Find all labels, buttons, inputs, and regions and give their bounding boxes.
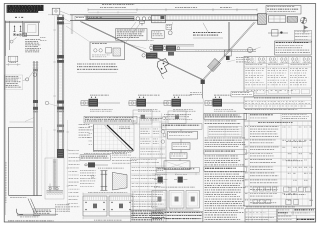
- graph axis labels: [93, 151, 133, 153]
- anchor trapezoid plate: [112, 172, 127, 190]
- secondary dimension line: [88, 11, 137, 13]
- trolley detail rails: [150, 44, 194, 46]
- dimension line left of wall: [46, 130, 48, 195]
- beam inner lines: [84, 16, 258, 20]
- anchor plan view left: [83, 196, 107, 216]
- elbow bracket on left tie: [157, 59, 169, 74]
- left note block text: [5, 75, 23, 90]
- rope column labels: [246, 64, 263, 66]
- section B-B top flange lines: [5, 21, 40, 23]
- anchor plan rect group3: [168, 111, 186, 123]
- wall column chords: [33, 61, 37, 196]
- hoist runway block: [88, 17, 134, 21]
- load capacity curve: [107, 125, 133, 150]
- spacer block: [17, 34, 19, 36]
- flow labels top: [164, 114, 192, 119]
- anchor detail group 3: [173, 94, 192, 96]
- reeving sketch 1b: [258, 58, 260, 60]
- flow profile outline: [164, 161, 190, 170]
- reeving sketch 3a: [292, 58, 294, 60]
- rope spec text column 3: [290, 68, 308, 85]
- load diagram axes: [93, 125, 134, 151]
- beam end fitting box: [268, 16, 285, 22]
- reeving sketch 3b: [303, 58, 305, 60]
- parts table quantity cells: [282, 126, 285, 128]
- flow box 3: [172, 143, 190, 150]
- flow balloons: [163, 117, 166, 120]
- plan view labels: [88, 191, 128, 193]
- anchor bolt right: [19, 26, 21, 31]
- flow column frame: [162, 98, 203, 222]
- anchor detail inner column: [53, 159, 57, 190]
- annotation under schematic: [77, 64, 118, 69]
- parts table header text: [250, 114, 273, 116]
- dimension line under detail box: [6, 63, 20, 66]
- beam bottom chord: [70, 20, 258, 22]
- labels right of caption: [112, 152, 136, 163]
- rope spec text column 1: [245, 68, 265, 85]
- flow title strip: [162, 124, 203, 130]
- rope subtotal boxes: [246, 89, 255, 93]
- numeric sub-table: [244, 97, 312, 109]
- tie rod left: [80, 22, 203, 80]
- wall column splice plates: [33, 100, 38, 103]
- title block drawing title: [294, 209, 313, 211]
- title block small fields: [278, 209, 289, 211]
- notes column heading 2: [204, 150, 247, 155]
- parts table caption: [246, 206, 295, 208]
- hoist schematic box: [90, 42, 125, 60]
- small assembly under caption: [84, 164, 108, 166]
- fastener icon row 1: [253, 187, 258, 191]
- general notes dense text band: [7, 5, 44, 13]
- hook block: [224, 50, 231, 56]
- anchor bolt left: [13, 26, 15, 31]
- text under console base: [20, 216, 38, 218]
- tie rod right: [203, 22, 256, 79]
- main column splice lower: [57, 125, 63, 127]
- reeving sketch 1a: [247, 58, 249, 60]
- note under anchor detail: [55, 205, 71, 211]
- console diagonal strut: [28, 199, 37, 214]
- section B-B housing box: [24, 23, 39, 36]
- bottom parts table: [152, 211, 203, 222]
- flow box 4: [170, 153, 187, 159]
- anchor detail group 1: [90, 94, 109, 96]
- anchor plan rect group2: [133, 110, 152, 124]
- beam top chord: [70, 14, 258, 16]
- building roof upper line: [9, 121, 33, 123]
- hoist symbol leader: [48, 11, 70, 15]
- title block frame: [277, 209, 316, 222]
- beam label box: [75, 16, 86, 20]
- parts table subheader row: [258, 121, 292, 123]
- callout balloon 5: [10, 40, 13, 43]
- mast leader line: [66, 26, 90, 42]
- section B-B hatched corner block: [23, 33, 27, 36]
- gusset plate on right tie: [207, 58, 220, 71]
- facade vertical pair: [71, 15, 73, 34]
- main column bottom block: [57, 149, 64, 158]
- small detail box: [8, 56, 18, 62]
- section B-B label: [15, 16, 23, 18]
- main column splice top: [57, 55, 63, 58]
- anchor detail labels: [98, 167, 124, 169]
- tie annotation: [236, 57, 250, 62]
- fastener icon row 2: [253, 200, 258, 204]
- anchor plan view right: [109, 196, 133, 216]
- anchor detail cross parts: [46, 190, 63, 192]
- base plan view 3: [186, 191, 200, 209]
- hoist rope: [228, 22, 229, 50]
- wall column top bracket: [33, 62, 39, 68]
- building roof line: [9, 127, 34, 129]
- rope data table frame: [244, 56, 312, 95]
- small weld detail right: [178, 177, 183, 183]
- survey point symbol: [300, 17, 306, 23]
- small dimension text pair: [40, 38, 46, 41]
- load capacity curve 2: [104, 125, 129, 150]
- small ref box and balloon: [166, 25, 172, 30]
- rope spec dividers: [252, 67, 297, 88]
- dimension figures: [100, 7, 126, 9]
- sheet header tiny text: [102, 3, 134, 5]
- building wall left edge: [8, 127, 10, 196]
- wall column balloon: [33, 73, 37, 77]
- beam truss web ticks: [167, 15, 254, 20]
- section B-B verticals: [5, 21, 24, 56]
- mid caption box: [80, 155, 110, 160]
- parts table descriptions: [250, 127, 279, 137]
- beam end hatched block: [258, 14, 267, 25]
- trolley wheels: [136, 17, 140, 21]
- building floor line: [9, 195, 42, 197]
- notes heading 3: [204, 167, 247, 172]
- console label box: [33, 209, 55, 216]
- dimension chain line right of column: [67, 120, 69, 212]
- wall column rungs: [35, 128, 37, 186]
- bolt circle right: [19, 34, 22, 37]
- base plan view 2: [169, 191, 184, 209]
- graph left text rows: [79, 125, 91, 138]
- console base line: [17, 214, 58, 216]
- notes column header bar: [204, 113, 247, 119]
- load diagram grid: [93, 125, 134, 151]
- revision table: [245, 209, 277, 222]
- reeving sketch 2a: [269, 58, 271, 60]
- small note box 2: [152, 31, 165, 39]
- flow side labels: [190, 92, 202, 94]
- flow connectors: [180, 129, 181, 161]
- middle table lower: [131, 158, 166, 210]
- roof leader line: [25, 118, 34, 122]
- inner left margin line: [4, 20, 6, 215]
- section B-B callout note text: [25, 40, 41, 52]
- rope table corner tab: [231, 92, 254, 97]
- anchor detail group 2: [138, 94, 160, 96]
- monorail line: [150, 50, 256, 52]
- middle table dark footer: [131, 210, 166, 222]
- base plan view 1: [152, 191, 167, 209]
- bottom-left caption line: [8, 220, 54, 222]
- anchor I-beam: [102, 171, 106, 191]
- hoist schematic leader: [125, 24, 140, 44]
- dimension line between columns: [54, 16, 56, 190]
- base plan dims: [152, 209, 200, 211]
- t caption box: [156, 167, 199, 172]
- anchor detail group 4: [214, 94, 234, 96]
- overall dimension line: [88, 9, 257, 11]
- flow box 2: [168, 131, 198, 139]
- hoist symbol box: [52, 8, 60, 15]
- title block drawing number: [297, 218, 315, 220]
- right notes box: [275, 41, 312, 55]
- flag marker: [303, 25, 305, 33]
- tie rod apex fitting: [201, 80, 205, 84]
- trolley hook parts: [140, 21, 145, 23]
- small weld detail left: [158, 177, 163, 183]
- notes column body text: [205, 156, 246, 220]
- carriage box: [152, 15, 166, 23]
- trolley detail blocks: [153, 45, 163, 51]
- dimension text column right of column: [69, 150, 80, 206]
- caption strip box: [84, 116, 137, 123]
- numeric table caption: [245, 109, 297, 111]
- reeving sketch 2b: [281, 58, 283, 60]
- main column top connection plates: [57, 17, 63, 20]
- console hook profile: [17, 209, 23, 215]
- parts table merged row text: [286, 140, 306, 142]
- runway block top label: [89, 16, 102, 18]
- underlined annotation: [193, 32, 222, 35]
- top right note box: [266, 6, 301, 15]
- small schedule box top right: [294, 30, 311, 42]
- main column splice mid: [57, 100, 63, 103]
- pulley sketch right: [247, 47, 252, 52]
- vertical margin label: [5, 162, 7, 203]
- section B-B housing inner box: [28, 25, 36, 33]
- left note leader balloon: [23, 79, 26, 82]
- main column lattice rungs: [58, 22, 62, 151]
- notes column upper text: [205, 121, 241, 123]
- curve annotation: [119, 127, 130, 129]
- counter-bracket hatched: [287, 17, 297, 23]
- parts table frame: [244, 113, 312, 206]
- plan view labels row: [154, 186, 195, 188]
- middle table upper: [139, 117, 166, 158]
- wall right faint edge: [41, 127, 43, 196]
- notes column inner table: [208, 126, 242, 136]
- bolt circle left: [13, 33, 16, 36]
- bracket detail top right: [268, 32, 288, 34]
- rope spec text column 2: [268, 68, 288, 85]
- anchor text column left: [80, 170, 96, 186]
- balloon at column mid: [45, 101, 49, 105]
- main column chords: [57, 15, 64, 158]
- notes column mid text: [205, 138, 246, 147]
- note box under beam: [116, 29, 147, 41]
- column anchor detail enclosure: [45, 158, 64, 199]
- plan dimension line: [83, 193, 133, 196]
- text under wall floor line: [10, 197, 26, 199]
